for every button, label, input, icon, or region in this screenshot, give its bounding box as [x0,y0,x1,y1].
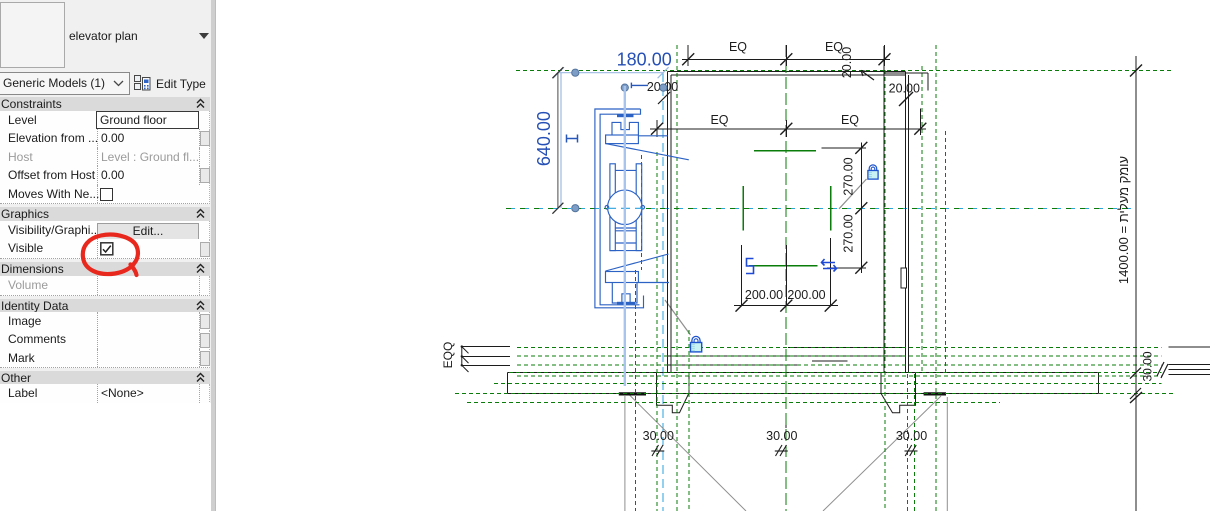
dim 270: line [860,143,862,274]
shaft left wall [667,71,669,372]
comments row [0,330,210,350]
thick bar bottom [617,302,635,305]
cab left line [742,186,744,231]
svg-text:200.00: 200.00 [787,288,825,302]
ref plane vert left-of-shaft [676,45,678,511]
svg-text:270.00: 270.00 [841,157,855,195]
dim 640 ticks [552,67,563,214]
ref plane vert right-wall [907,374,909,511]
machine arm bottom [638,282,669,284]
svg-text:200.00: 200.00 [745,288,783,302]
flip control left [746,259,754,274]
EQ witness stub mid [462,355,510,357]
selector label [69,29,138,43]
dim EQ mid: ticks [651,123,926,135]
svg-text:1400.00 = עומק מעלית: 1400.00 = עומק מעלית [1116,156,1131,284]
EQ arrow tips [461,345,463,347]
svg-text:20.00: 20.00 [889,82,920,96]
guide rail left [610,164,615,251]
volume row [0,276,210,296]
dim 270: ticks [855,142,867,274]
rail crossbar 4 [615,242,636,244]
wall continuation stubs right [1169,346,1210,348]
type combobox [0,72,130,95]
leader to lock padlock 2 [665,300,691,335]
elevator inner bracket [600,109,640,305]
label row [0,384,210,404]
shaft right wall inner face [883,46,885,373]
ref plane horiz center overlay [506,207,1132,209]
panel divider [211,0,216,511]
identity data header [0,299,210,312]
rail crossbar 3 [615,230,636,232]
EQ witness stub bottom [462,364,510,366]
guide rail right [636,164,642,251]
edit type icon [134,75,151,91]
lobby wall band right edge [1098,373,1100,394]
ref plane vert rail upper [641,155,643,270]
svg-text:30.00: 30.00 [1141,351,1155,381]
center reference plane horizontal (cyan dashed) [506,207,1133,209]
svg-text:EQ: EQ [729,40,747,54]
cab top line [754,150,816,152]
graphics header [0,207,210,221]
center reference plane vertical (cyan dashed) [662,73,664,511]
image row [0,312,210,332]
drag handle I-bar 640 [567,135,578,143]
small rect detail on right wall [901,268,907,288]
dim 20 right: tick [899,92,913,106]
dim EQ top: ticks [682,53,890,65]
lobby wall band left edge [506,373,508,394]
door threshold thick left [619,392,646,395]
other header [0,371,210,384]
pulley circle [608,190,642,224]
white area below grid [0,403,211,511]
door leaf line [812,360,848,362]
machine block bottom U [612,283,637,304]
dim 20 right: bracket [885,72,929,74]
EQ arrow connector [461,347,463,366]
leader to lock padlock 1 [839,179,867,209]
dim 30 right: ticks [1130,362,1168,399]
svg-text:270.00: 270.00 [841,214,855,252]
visible row [0,239,210,259]
dim 270: witness top [821,147,866,149]
rail bottom bar [610,250,642,252]
cab right line [830,186,832,231]
offset row [0,166,210,186]
pulley side nub right [641,206,645,210]
selector dropdown arrow [199,33,209,39]
sling diagonal top [606,144,689,160]
ref plane vert right-of-shaft [921,66,923,374]
ref plane vert pit-edge [945,131,947,374]
svg-text:180.00: 180.00 [617,50,672,70]
gray projection line right [946,397,948,511]
cyan dashes over pulley [607,207,643,209]
edit type label [156,77,206,91]
green dashed reference planes [455,45,1175,511]
temporary dimension graphics (light blue) [553,67,669,208]
level row [0,111,210,131]
ref plane vert center [785,45,787,511]
selection grips [572,69,667,212]
machine arm top [638,135,667,137]
svg-text:30.00: 30.00 [643,429,674,443]
ref plane vert right-inner [884,70,886,511]
EQ arrow barbs [462,347,469,372]
sling diagonal bottom [606,254,669,271]
dim 270: witness bottom [827,267,866,269]
properties panel [0,0,211,511]
flip control right [822,259,837,272]
rail crossbar 2 [615,227,636,229]
EQ witness stub top [462,346,510,348]
svg-text:EQ: EQ [841,113,859,127]
door jamb right-1 [880,373,882,394]
elevator outer bracket [595,109,644,308]
dimensions header [0,262,210,276]
door jamb left-1 [656,373,658,394]
dim 640 line (dark) [557,73,559,209]
door jamb right-2 [915,373,917,394]
ref plane vert door-left2 [688,330,690,511]
padlock 1 [868,165,878,179]
cab green lines [743,151,831,266]
dim 1400: ticks [1130,65,1142,404]
temp dim 180 line [559,72,664,74]
elevation row [0,129,210,149]
cab bottom line [749,265,818,267]
door recess right [881,393,916,412]
ref plane horiz top [516,70,1174,72]
dim EQ mid: witness lines [656,120,658,137]
selected elevator generic model (blue) [595,109,689,308]
shaft bottom wall line upper-right [788,346,906,348]
moves-with row [0,185,210,205]
door recess left [657,393,689,412]
dim 20 top-left leader arrow [861,71,874,81]
svg-text:30.00: 30.00 [896,429,927,443]
ref plane horiz rows bottom [517,346,1162,348]
gray diagonal left [629,395,746,511]
padlock 2 [691,336,702,351]
dim 1400: line [1135,56,1137,511]
temp dim 20 handle [631,83,648,89]
door jamb left-2 [688,373,690,394]
tick at cyan axis [658,92,670,104]
dim 30 marks bottom (three) [651,445,917,456]
door threshold thick right [924,392,946,395]
dim EQ top: witness lines [687,45,689,66]
visibility row [0,221,210,241]
thumbnail box [0,2,65,68]
machine base top [606,135,639,144]
dim EQ mid: line [650,128,926,130]
center line tick below wall [785,420,787,428]
dim 200: witness lines [741,245,743,306]
ref plane vert rail lower [634,270,636,511]
svg-text:640.00: 640.00 [534,111,554,166]
lobby wall band bottom [507,392,1098,394]
dimensions (black) [650,45,1168,511]
ref plane vert far-right [935,45,937,511]
shaft bottom wall line mid [668,355,906,357]
svg-text:EQQ: EQQ [441,342,455,369]
svg-text:EQ: EQ [710,113,728,127]
temp dim 180 ticks [553,67,564,78]
pulley side nub left [605,206,609,210]
temp dim 640 witness [560,73,562,209]
thick bar top [617,114,634,117]
shaft bottom wall line lower-left [668,364,800,366]
dim 200 pair: line [734,305,838,307]
dim 200: ticks [736,300,837,312]
mark row [0,349,210,369]
shaft right wall [905,71,907,372]
ref plane vert door-left [656,152,658,511]
svg-text:30.00: 30.00 [766,429,797,443]
ref plane vert door-right [914,374,916,511]
gray projection line left [624,396,626,511]
gray diagonal right [823,396,941,511]
constraints header [0,97,210,111]
machine base bottom [606,272,639,283]
svg-text:20.00: 20.00 [840,47,854,78]
dim EQ top: line [682,58,890,60]
rail crossbar 1 [615,169,636,171]
shaft top wall [668,70,906,72]
red annotation circle [75,228,149,286]
lobby wall band top [507,372,1098,374]
machine block top U [612,122,638,135]
dimension texts black [441,40,1155,443]
host row [0,148,210,168]
selected reference line axis (light blue) [624,86,626,386]
